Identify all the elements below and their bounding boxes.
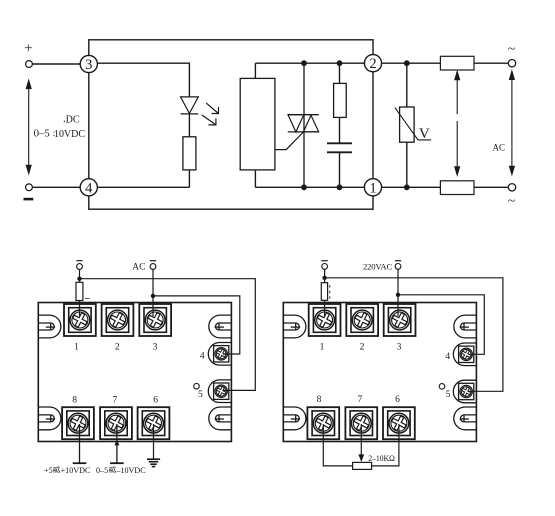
terminal 4 cap bbox=[453, 343, 476, 366]
mounting ear top-right bbox=[454, 315, 477, 338]
terminal 4 cap bbox=[208, 343, 231, 366]
svg-text:8: 8 bbox=[317, 395, 322, 405]
junction snubber bottom bbox=[337, 184, 343, 190]
DC input - terminal bbox=[26, 184, 33, 191]
svg-text:3: 3 bbox=[397, 343, 402, 353]
resistor R2 (snubber) bbox=[334, 83, 347, 117]
module body bbox=[38, 303, 231, 442]
svg-text:–10VDC: –10VDC bbox=[115, 466, 145, 475]
indicator circle bbox=[194, 383, 200, 389]
mounting ear bottom-left bbox=[38, 407, 61, 430]
screw terminal 2 bbox=[102, 304, 134, 336]
junction triac top bbox=[301, 60, 307, 66]
svg-text:4: 4 bbox=[445, 352, 450, 362]
mounting ear bottom-right bbox=[454, 407, 477, 430]
wire node B to terminal 4 bbox=[153, 296, 240, 354]
svg-text:2–10KΩ: 2–10KΩ bbox=[368, 454, 395, 463]
mounting ear top-right bbox=[209, 315, 232, 338]
wire circle B to terminal 3 bbox=[152, 269, 154, 316]
screw terminal 6 bbox=[138, 407, 170, 439]
screw terminal 3 bbox=[139, 304, 171, 336]
svg-text:2: 2 bbox=[115, 343, 120, 353]
resistor (input) bbox=[76, 282, 83, 300]
junction varistor top bbox=[404, 60, 410, 66]
varistor RV bbox=[400, 107, 415, 142]
junction triac bottom bbox=[301, 184, 307, 190]
svg-text:0–5: 0–5 bbox=[96, 466, 108, 475]
input terminal circle A bbox=[77, 264, 83, 270]
wire varistor branch top bbox=[406, 63, 408, 107]
wire load box to AC terminal bottom bbox=[474, 186, 509, 188]
screw terminal 2 bbox=[346, 304, 378, 336]
wire node B to terminal 4 bbox=[398, 295, 484, 355]
svg-text:V: V bbox=[419, 126, 430, 142]
svg-text:6: 6 bbox=[395, 395, 400, 405]
capacitor C1 (snubber) bbox=[327, 142, 352, 144]
mounting ear bottom-left bbox=[283, 407, 306, 430]
wire trigger box stub bottom bbox=[254, 170, 256, 187]
svg-text:DC: DC bbox=[66, 114, 80, 125]
mounting ear bottom-right bbox=[209, 407, 232, 430]
potentiometer body bbox=[353, 462, 372, 469]
svg-text:220VAC: 220VAC bbox=[363, 262, 392, 272]
wire node A to terminal 5 bbox=[325, 278, 503, 392]
screw terminal 5 bbox=[459, 383, 474, 399]
terminal 5 cap bbox=[453, 380, 476, 403]
input terminal circle B bbox=[150, 264, 156, 270]
svg-text:~: ~ bbox=[508, 42, 516, 57]
LED D1 bbox=[181, 97, 199, 114]
mounting ear top-left bbox=[38, 315, 61, 338]
svg-text:0–5: 0–5 bbox=[34, 128, 50, 140]
svg-text:1: 1 bbox=[74, 343, 79, 353]
wire load box to AC terminal top bbox=[474, 62, 509, 64]
node B bbox=[396, 293, 400, 297]
svg-text:1: 1 bbox=[320, 343, 325, 353]
load/fuse box bottom bbox=[440, 181, 474, 195]
svg-text:6: 6 bbox=[153, 395, 158, 405]
input terminal circle A bbox=[322, 264, 328, 270]
resistor R1 (LED series) bbox=[183, 137, 196, 170]
junction varistor bottom bbox=[404, 184, 410, 190]
wire resistor to bottom rail bbox=[188, 170, 190, 187]
svg-text:+: + bbox=[24, 41, 32, 57]
input terminal circle B bbox=[395, 264, 401, 270]
screw terminal 7 bbox=[100, 407, 132, 439]
wire node A to terminal 5 bbox=[80, 279, 256, 391]
load/fuse box top bbox=[440, 56, 474, 70]
wire snubber branch top bbox=[339, 63, 341, 83]
wire circle B to terminal 3 bbox=[397, 269, 399, 316]
svg-text:+10VDC: +10VDC bbox=[61, 466, 91, 475]
trigger circuit box U1 bbox=[240, 78, 275, 169]
wire - input to terminal 4 bbox=[32, 186, 80, 188]
svg-text:10VDC: 10VDC bbox=[54, 129, 85, 140]
svg-text:2: 2 bbox=[369, 56, 376, 72]
SSR outer box bbox=[89, 40, 373, 209]
terminal 5 cap bbox=[208, 380, 231, 403]
wire LED cathode to resistor bbox=[188, 114, 190, 137]
wire terminal 8 down bbox=[79, 424, 81, 463]
svg-text:+5: +5 bbox=[44, 466, 53, 475]
AC terminal top bbox=[508, 60, 515, 67]
screw terminal 8 bbox=[307, 407, 339, 439]
svg-text:3: 3 bbox=[153, 343, 158, 353]
terminal 1 bbox=[364, 179, 381, 196]
screw terminal 8 bbox=[62, 407, 94, 439]
wire varistor branch bottom bbox=[406, 142, 408, 187]
screw terminal 7 bbox=[345, 407, 377, 439]
LED light arrow 1 bbox=[202, 103, 219, 125]
module body bbox=[283, 303, 476, 442]
svg-text:,: , bbox=[63, 114, 65, 124]
svg-text:5: 5 bbox=[446, 390, 451, 400]
wire top rail right bbox=[382, 62, 441, 64]
junction snubber top bbox=[337, 60, 343, 66]
terminal 3 bbox=[80, 55, 97, 72]
svg-text:AC: AC bbox=[493, 142, 506, 152]
LED light arrow 2 bbox=[202, 115, 216, 125]
screw terminal 1 bbox=[309, 304, 341, 336]
svg-text:AC: AC bbox=[132, 263, 145, 273]
potentiometer wiring bbox=[323, 424, 352, 466]
svg-text:4: 4 bbox=[200, 351, 205, 361]
wire trigger box stub top bbox=[254, 63, 256, 78]
wire + input to terminal 3 bbox=[32, 63, 80, 65]
wire capacitor to bottom rail bbox=[339, 153, 341, 188]
AC terminal bottom bbox=[508, 184, 515, 191]
mounting ear top-left bbox=[283, 315, 306, 338]
DC input + terminal bbox=[26, 61, 33, 68]
svg-text:7: 7 bbox=[358, 395, 363, 405]
node B bbox=[151, 294, 155, 298]
triac gate wire bbox=[275, 132, 304, 150]
svg-text:2: 2 bbox=[360, 343, 365, 353]
screw terminal 4 bbox=[214, 346, 229, 362]
screw terminal 3 bbox=[384, 304, 416, 336]
control voltage range arrow bbox=[26, 80, 31, 173]
wire circle A to terminal 1 bbox=[324, 269, 326, 316]
resistor (input) bbox=[321, 283, 327, 301]
screw terminal 6 bbox=[383, 407, 415, 439]
wire bottom rail right bbox=[382, 186, 441, 188]
load voltage arrow bbox=[455, 72, 460, 176]
wire bottom rail middle bbox=[255, 186, 364, 188]
svg-text:1: 1 bbox=[369, 180, 376, 196]
wire snubber resistor to capacitor bbox=[339, 117, 341, 143]
terminal 4 bbox=[80, 179, 97, 196]
screw terminal 1 bbox=[64, 304, 96, 336]
node A bbox=[77, 277, 81, 281]
screw terminal 4 bbox=[459, 346, 474, 362]
screw terminal 5 bbox=[214, 383, 229, 399]
node A bbox=[322, 276, 326, 280]
wire top rail middle bbox=[255, 62, 364, 64]
terminal 2 bbox=[364, 55, 381, 72]
wire bottom rail left bbox=[97, 186, 189, 188]
wiper wire with arrow bbox=[360, 424, 362, 455]
wire circle A to terminal 1 bbox=[79, 269, 81, 316]
svg-text:4: 4 bbox=[85, 180, 93, 196]
svg-text:3: 3 bbox=[85, 57, 92, 73]
svg-text:8: 8 bbox=[72, 395, 77, 405]
ground bbox=[153, 424, 155, 459]
svg-text:~: ~ bbox=[508, 194, 516, 209]
indicator circle bbox=[439, 384, 445, 390]
AC supply arrow bbox=[510, 71, 515, 174]
svg-text:5: 5 bbox=[198, 390, 203, 400]
wire top rail left bbox=[97, 63, 189, 97]
triac Q1 bbox=[288, 115, 304, 132]
wire terminal 7 down with arrow bbox=[116, 424, 118, 463]
svg-text:7: 7 bbox=[113, 395, 118, 405]
